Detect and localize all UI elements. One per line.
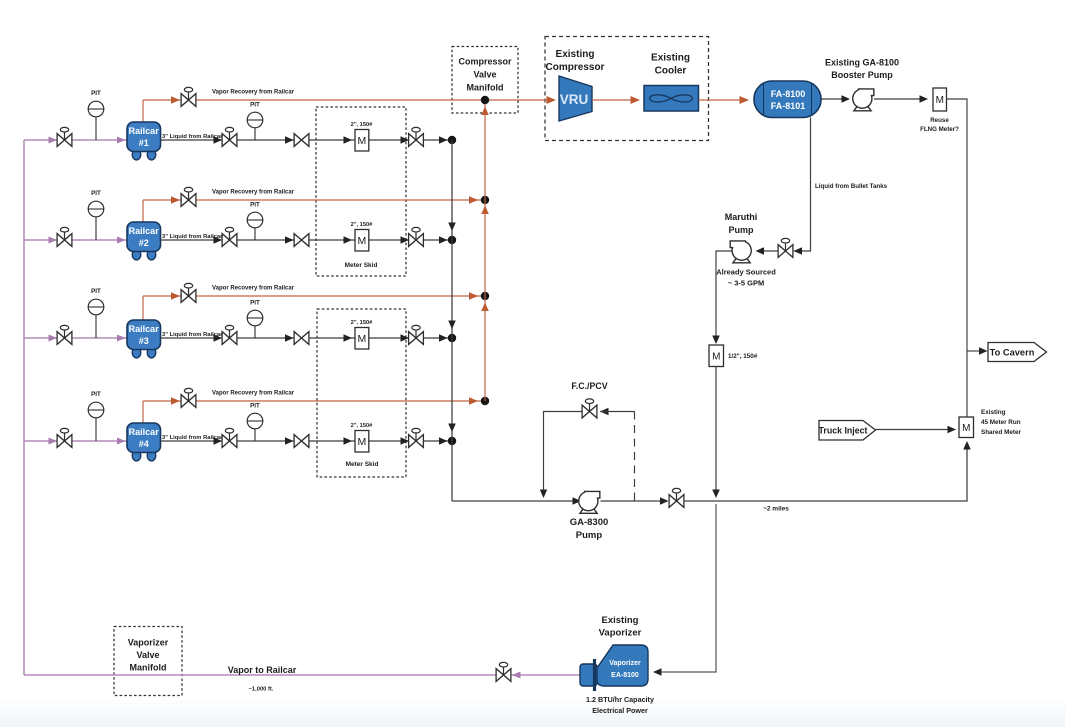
svg-text:Reuse: Reuse [930, 117, 949, 124]
svg-text:FA-8100: FA-8100 [771, 89, 806, 99]
svg-text:1.2 BTU/hr Capacity: 1.2 BTU/hr Capacity [586, 695, 654, 704]
arrow vapor into manifold row 4 [469, 397, 478, 405]
valve on vapor-to-railcar line [503, 666, 505, 675]
arrow before liquid valve1 row 1 [214, 136, 223, 144]
maruthi inlet valve [785, 242, 787, 251]
wire: meter to right header [947, 99, 968, 417]
liquid valve3 row 2 [415, 231, 417, 240]
meter M row 4 [355, 431, 369, 453]
arrow before liquid valve2 row 4 [285, 437, 294, 445]
arrow into main line junction [712, 490, 720, 499]
wire: vessel drop to maruthi valve [794, 118, 811, 252]
svg-text:Vapor Recovery from Railcar: Vapor Recovery from Railcar [212, 190, 295, 196]
railcar #1 [132, 149, 141, 160]
wire: recycle left leg [544, 412, 583, 493]
wire: meter down to main line [715, 367, 717, 493]
svg-text:Valve: Valve [136, 650, 159, 660]
vapor valve row 3 [188, 287, 190, 296]
arrow into FLNG meter [920, 95, 929, 103]
svg-text:#4: #4 [139, 439, 149, 449]
svg-text:Meter Skid: Meter Skid [346, 461, 379, 468]
valve F.C./PCV [589, 403, 591, 412]
svg-text:GA-8300: GA-8300 [570, 517, 609, 528]
svg-text:FA-8101: FA-8101 [771, 101, 806, 111]
arrow into FCPCV valve [600, 408, 609, 415]
wire: pink feed row 1 [24, 139, 127, 141]
arrow before liquid valve1 row 4 [214, 437, 223, 445]
wire: GA-8300 discharge [601, 500, 664, 502]
liquid valve2 row 2 [294, 234, 309, 247]
svg-text:Shared Meter: Shared Meter [981, 429, 1021, 436]
svg-text:EA-8100: EA-8100 [611, 672, 639, 679]
arrow up on vapor manifold [481, 107, 489, 116]
svg-text:Vapor Recovery from Railcar: Vapor Recovery from Railcar [212, 286, 295, 292]
liquid valve1 row 3 [229, 329, 231, 338]
svg-text:Compressor: Compressor [546, 62, 605, 73]
arrow into meter row 4 [344, 437, 353, 445]
arrow vapor before valve row 1 [171, 96, 180, 104]
arrow down on manifold above row 2 [448, 223, 456, 232]
vapor valve row 2 [188, 191, 190, 200]
svg-text:M: M [358, 436, 367, 448]
arrow pink before valve row 2 [49, 237, 58, 244]
meter skid dashed box rows 1-2 [316, 107, 406, 276]
meter skid dashed box rows 3-4 [317, 309, 406, 477]
arrow into vessel [740, 96, 750, 104]
svg-text:PIT: PIT [250, 102, 260, 109]
svg-text:Railcar: Railcar [129, 226, 160, 236]
junction dot liquid manifold row 2 [448, 236, 456, 244]
arrow up on vapor manifold [481, 206, 489, 215]
svg-text:#2: #2 [139, 238, 149, 248]
svg-text:Vaporizer: Vaporizer [609, 660, 641, 667]
arrow before liquid valve1 row 3 [214, 334, 223, 342]
svg-text:PIT: PIT [250, 403, 260, 410]
svg-text:Railcar: Railcar [129, 126, 160, 136]
svg-text:FLNG Meter?: FLNG Meter? [920, 126, 959, 133]
wire: vapor riser row 3 [142, 296, 144, 320]
arrow truck inject into meter [948, 426, 957, 433]
PIT on liquid line row 3 [254, 318, 256, 338]
arrow pink before valve row 4 [49, 438, 58, 445]
flag to cavern [988, 343, 1047, 362]
arrow into half-inch meter [712, 336, 720, 345]
wire: vapor recovery line row 3 [143, 295, 485, 297]
vessel FA-8100/FA-8101 [754, 81, 821, 118]
svg-text:2", 150#: 2", 150# [351, 122, 374, 128]
svg-text:Existing: Existing [556, 49, 595, 60]
arrow vapor before valve row 4 [171, 397, 180, 405]
svg-text:Vapor Recovery from Railcar: Vapor Recovery from Railcar [212, 391, 295, 397]
arrow into meter row 2 [344, 236, 353, 244]
svg-text:PIT: PIT [91, 288, 101, 295]
liquid valve1 row 1 [229, 131, 231, 140]
compressor VRU [559, 76, 592, 121]
svg-text:Meter Skid: Meter Skid [345, 262, 378, 269]
svg-text:F.C./PCV: F.C./PCV [571, 381, 607, 391]
wire: main line manifold to GA-8300 pump [452, 500, 578, 502]
junction dot liquid manifold row 4 [448, 437, 456, 445]
svg-text:Vapor to Railcar: Vapor to Railcar [228, 665, 297, 675]
wire: pink line vaporizer to valve [510, 674, 581, 676]
arrow into bottom valve [512, 672, 521, 679]
arrow pink before valve row 3 [49, 335, 58, 342]
arrow into discharge valve [660, 497, 669, 505]
wire: pink vertical header [23, 140, 25, 675]
liquid valve3 row 1 [415, 131, 417, 140]
arrow pink into railcar row 4 [117, 438, 126, 445]
svg-text:PIT: PIT [91, 90, 101, 97]
PIT on liquid line row 2 [254, 220, 256, 240]
svg-text:1/2", 150#: 1/2", 150# [728, 353, 758, 360]
arrow into booster pump [842, 95, 851, 103]
arrow before liquid valve2 row 2 [285, 236, 294, 244]
arrow before liquid valve3 row 3 [401, 334, 410, 342]
railcar #2 [132, 249, 141, 260]
arrow into maruthi pump [756, 247, 765, 255]
wire: liquid manifold vertical [451, 140, 453, 501]
svg-text:M: M [936, 95, 944, 106]
pink feed valve row 4 [64, 432, 66, 441]
wire: pink feed row 4 [24, 440, 127, 442]
meter shared 45m run [959, 417, 974, 438]
booster pump GA-8100 [853, 89, 874, 111]
arrow vapor before valve row 2 [171, 196, 180, 204]
wire: vessel to booster pump [821, 98, 844, 100]
wire: booster pump to meter [874, 98, 923, 100]
svg-text:Manifold: Manifold [467, 83, 504, 93]
liquid valve3 row 3 [415, 329, 417, 338]
arrow before liquid valve1 row 2 [214, 236, 223, 244]
arrow down on manifold above row 4 [448, 424, 456, 433]
PIT on liquid line row 1 [254, 120, 256, 140]
junction dot vapor manifold row 4 [481, 397, 489, 405]
pump GA-8300 [579, 491, 600, 513]
arrow to cavern [979, 347, 988, 355]
junction dot liquid manifold row 3 [448, 334, 456, 342]
arrow before liquid valve3 row 1 [401, 136, 410, 144]
arrow down on manifold above row 3 [448, 321, 456, 330]
cooler [644, 86, 699, 112]
svg-text:VRU: VRU [560, 92, 589, 107]
PIT on liquid line row 4 [254, 421, 256, 441]
arrow into cooler [631, 96, 641, 104]
arrow into vaporizer [653, 668, 662, 676]
junction dot vapor manifold row 2 [481, 196, 489, 204]
wire: maruthi pump down to meter [716, 251, 732, 340]
meter M row 1 [355, 130, 369, 152]
wire: liquid line row 4 [161, 440, 453, 442]
svg-text:2", 150#: 2", 150# [351, 423, 374, 429]
arrow vapor before valve row 3 [171, 292, 180, 300]
arrow before liquid valve3 row 4 [401, 437, 410, 445]
junction dot vapor manifold row 3 [481, 292, 489, 300]
wire: VRU to cooler [592, 99, 635, 101]
meter M row 3 [355, 328, 369, 350]
liquid valve1 row 2 [229, 231, 231, 240]
svg-text:Existing GA-8100: Existing GA-8100 [825, 58, 899, 68]
svg-text:Maruthi: Maruthi [725, 212, 758, 222]
meter reuse FLNG [933, 88, 947, 111]
svg-text:Pump: Pump [576, 530, 603, 541]
wire: valve to maruthi pump [757, 250, 778, 252]
svg-text:Electrical Power: Electrical Power [592, 706, 648, 715]
svg-text:2", 150#: 2", 150# [351, 320, 374, 326]
liquid valve2 row 4 [294, 435, 309, 448]
pink feed valve row 2 [64, 231, 66, 240]
svg-text:Existing: Existing [981, 409, 1006, 416]
wire: junction down to vaporizer [661, 504, 716, 672]
arrow pink into railcar row 1 [117, 137, 126, 144]
wire: pink feed row 3 [24, 337, 127, 339]
meter half-inch [709, 345, 724, 367]
svg-text:Truck Inject: Truck Inject [819, 426, 868, 436]
arrow pink before valve row 1 [49, 137, 58, 144]
arrow up into shared meter [963, 441, 971, 450]
wire: liquid line row 1 [161, 139, 453, 141]
svg-text:Railcar: Railcar [129, 427, 160, 437]
svg-text:PIT: PIT [250, 300, 260, 307]
junction dot liquid manifold row 1 [448, 136, 456, 144]
svg-text:Booster Pump: Booster Pump [831, 70, 893, 80]
svg-text:PIT: PIT [250, 202, 260, 209]
arrow before liquid valve3 row 2 [401, 236, 410, 244]
PIT on pink feed row 2 [95, 209, 97, 240]
discharge valve [676, 492, 678, 501]
vapor valve row 4 [188, 392, 190, 401]
svg-text:Manifold: Manifold [130, 663, 167, 673]
arrow before liquid valve2 row 3 [285, 334, 294, 342]
wire: truck inject to shared meter [876, 429, 951, 431]
arrow into liquid manifold row 1 [439, 136, 448, 144]
pink feed valve row 3 [64, 329, 66, 338]
svg-text:~ 3-5 GPM: ~ 3-5 GPM [728, 279, 764, 288]
meter M row 2 [355, 230, 369, 252]
PIT on pink feed row 4 [95, 410, 97, 441]
arrow into liquid manifold row 2 [439, 236, 448, 244]
wire: vapor riser row 4 [142, 401, 144, 423]
wire: vapor recovery line row 2 [143, 199, 485, 201]
svg-text:Vaporizer: Vaporizer [599, 628, 642, 639]
svg-text:To Cavern: To Cavern [990, 348, 1035, 358]
arrow into GA-8300 pump [573, 497, 582, 505]
svg-text:M: M [358, 135, 367, 147]
svg-text:~2 miles: ~2 miles [763, 506, 789, 513]
arrow up on vapor manifold [481, 303, 489, 312]
railcar #4 [132, 450, 141, 461]
arrow pink into railcar row 3 [117, 335, 126, 342]
svg-text:Already Sourced: Already Sourced [716, 268, 776, 277]
wire: pink feed row 2 [24, 239, 127, 241]
arrow recycle into suction line [540, 490, 547, 499]
svg-text:M: M [962, 423, 970, 434]
svg-text:PIT: PIT [91, 391, 101, 398]
PIT on pink feed row 3 [95, 307, 97, 338]
arrow before liquid valve2 row 1 [285, 136, 294, 144]
svg-text:Pump: Pump [728, 225, 754, 235]
wire: pink bottom return line to valve [24, 674, 497, 676]
liquid valve2 row 3 [294, 332, 309, 345]
arrow into meter row 1 [344, 136, 353, 144]
vapor valve row 1 [188, 91, 190, 100]
svg-text:45 Meter Run: 45 Meter Run [981, 419, 1021, 426]
wire: vapor riser row 1 [142, 100, 144, 122]
arrow into liquid manifold row 3 [439, 334, 448, 342]
wire: liquid line row 2 [161, 239, 453, 241]
svg-text:M: M [358, 235, 367, 247]
svg-text:Existing: Existing [651, 53, 690, 64]
svg-text:Valve: Valve [473, 70, 496, 80]
svg-text:#3: #3 [139, 336, 149, 346]
svg-text:Vaporizer: Vaporizer [128, 638, 169, 648]
compressor/cooler dashed box [545, 37, 709, 141]
liquid valve1 row 4 [229, 432, 231, 441]
svg-text:Liquid from Bullet Tanks: Liquid from Bullet Tanks [815, 183, 888, 190]
arrow vapor into manifold row 2 [469, 196, 478, 204]
wire: recycle right leg [600, 411, 635, 413]
vaporizer EA-8100 [580, 664, 597, 686]
svg-text:Existing: Existing [602, 615, 639, 626]
arrow into liquid manifold row 4 [439, 437, 448, 445]
wire: recycle right leg dashed drop [634, 412, 636, 502]
wire: to cavern branch [967, 350, 983, 352]
arrow into maruthi valve [794, 247, 803, 255]
wire: main line to right header [684, 444, 967, 501]
arrow vapor into manifold row 3 [469, 292, 478, 300]
pink feed valve row 1 [64, 131, 66, 140]
svg-text:M: M [358, 333, 367, 345]
PIT on pink feed row 1 [95, 109, 97, 140]
wire: liquid line row 3 [161, 337, 453, 339]
pump maruthi [730, 241, 751, 263]
wire: vapor riser row 2 [142, 200, 144, 222]
svg-text:Railcar: Railcar [129, 324, 160, 334]
railcar #3 [132, 347, 141, 358]
arrow pink into railcar row 2 [117, 237, 126, 244]
arrow into meter row 3 [344, 334, 353, 342]
svg-text:#1: #1 [139, 138, 149, 148]
svg-text:M: M [712, 351, 720, 362]
wire: vapor recovery line row 4 [143, 400, 485, 402]
svg-text:~1,000 ft.: ~1,000 ft. [249, 687, 274, 693]
wire: vapor manifold vertical [484, 100, 486, 401]
compressor valve manifold dashed box [452, 47, 518, 114]
svg-text:PIT: PIT [91, 190, 101, 197]
vaporizer valve manifold dashed box [114, 627, 182, 696]
junction dot compressor valve manifold [481, 96, 489, 104]
svg-text:Vapor Recovery from Railcar: Vapor Recovery from Railcar [212, 90, 295, 96]
arrow into VRU compressor [547, 96, 557, 104]
flag truck inject [819, 421, 876, 441]
wire: cooler to vessel [699, 99, 745, 101]
wire: vapor recovery line row 1 [143, 99, 553, 101]
svg-text:Compressor: Compressor [458, 57, 512, 67]
svg-text:Cooler: Cooler [655, 66, 687, 77]
liquid valve2 row 1 [294, 134, 309, 147]
svg-text:2", 150#: 2", 150# [351, 222, 374, 228]
liquid valve3 row 4 [415, 432, 417, 441]
